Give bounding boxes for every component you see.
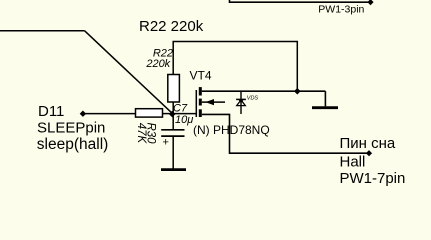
svg-text:C7: C7 bbox=[173, 102, 188, 114]
svg-text:47K: 47K bbox=[135, 123, 147, 145]
svg-text:+: + bbox=[163, 136, 169, 148]
svg-text:PW1-3pin: PW1-3pin bbox=[318, 3, 364, 15]
capacitor C7 plate top bbox=[161, 129, 184, 131]
wire drain bbox=[202, 90, 326, 92]
svg-text:10μ: 10μ bbox=[175, 114, 193, 126]
wire junction to C7 bbox=[172, 114, 174, 130]
svg-text:SLEEPpin: SLEEPpin bbox=[37, 120, 105, 137]
arrow body bbox=[205, 99, 214, 105]
node C7 junction bbox=[169, 111, 176, 118]
node D11 bbox=[80, 111, 86, 117]
svg-text:Hall: Hall bbox=[340, 154, 366, 171]
wire diagonal bbox=[85, 31, 173, 114]
wire C7 to ground bbox=[172, 136, 174, 169]
resistor R22 bbox=[168, 75, 180, 103]
svg-text:(N) PHD78NQ: (N) PHD78NQ bbox=[193, 123, 270, 137]
diode VDS apex fill bbox=[238, 100, 243, 103]
node PW1-3pin bbox=[367, 0, 373, 5]
wire D11 to R30 bbox=[83, 113, 136, 115]
wire R22 bottom bbox=[172, 102, 174, 114]
diode VDS triangle bbox=[237, 100, 246, 106]
svg-text:220k: 220k bbox=[145, 58, 170, 70]
transistor VT4 source bar bbox=[199, 109, 202, 117]
svg-text:PW1-7pin: PW1-7pin bbox=[340, 170, 406, 187]
wire R22 top loop bbox=[173, 42, 297, 92]
wire drain corner down bbox=[324, 91, 326, 106]
wire gate bbox=[173, 113, 197, 115]
wire body arrow line bbox=[202, 101, 225, 103]
svg-text:VT4: VT4 bbox=[190, 68, 212, 82]
svg-text:VDS: VDS bbox=[247, 96, 259, 102]
wire source bbox=[202, 114, 368, 153]
diode VDS lead top bbox=[240, 91, 242, 114]
value label R30 47K rotated bbox=[135, 122, 156, 144]
ground left bbox=[161, 168, 186, 171]
transistor VT4 gate bar bbox=[195, 90, 197, 117]
wire R30 to junction bbox=[163, 113, 173, 115]
wire left horizontal bbox=[0, 30, 85, 32]
capacitor C7 plate bottom bbox=[161, 135, 184, 137]
svg-text:D11: D11 bbox=[38, 103, 64, 120]
svg-text:R22 220k: R22 220k bbox=[139, 18, 204, 35]
wire top PW1-3pin horizontal bbox=[230, 0, 371, 2]
svg-text:Пин сна: Пин сна bbox=[340, 135, 396, 152]
diode VDS cathode bar bbox=[236, 98, 246, 100]
svg-text:sleep(hall): sleep(hall) bbox=[37, 136, 109, 153]
transistor VT4 body bar bbox=[199, 99, 202, 106]
resistor R30 bbox=[136, 109, 163, 117]
node sleep pin bbox=[366, 150, 372, 156]
ground right bbox=[312, 106, 338, 109]
node drain junction bbox=[294, 88, 301, 95]
transistor VT4 drain bar bbox=[199, 87, 202, 95]
